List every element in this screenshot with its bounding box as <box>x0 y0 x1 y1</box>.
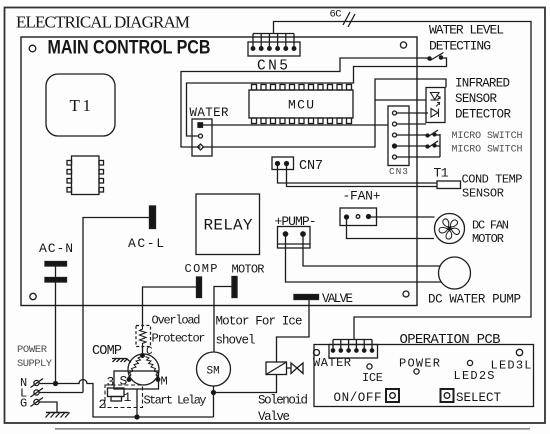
svg-text:SENSOR: SENSOR <box>462 187 504 201</box>
connector WATER (3-pin) <box>192 119 212 156</box>
svg-text:MOTOR: MOTOR <box>232 263 265 277</box>
connector CN5 <box>248 34 300 57</box>
wire CN3 pin3 to micro switch 1 <box>397 134 427 136</box>
svg-text:COMP: COMP <box>185 262 218 276</box>
micro switch SW2 <box>426 130 440 137</box>
svg-text:DC WATER PUMP: DC WATER PUMP <box>428 293 521 307</box>
svg-text:ICE: ICE <box>362 371 383 385</box>
svg-text:LED3L: LED3L <box>491 359 532 373</box>
svg-text:OPERATION PCB: OPERATION PCB <box>400 332 501 348</box>
svg-text:WATER: WATER <box>313 356 351 370</box>
svg-text:MCU: MCU <box>288 98 314 113</box>
start relay body <box>114 371 159 389</box>
operation PCB connector <box>329 340 378 359</box>
svg-text:SM: SM <box>207 366 220 378</box>
svg-text:-FAN+: -FAN+ <box>343 189 381 204</box>
compressor casing hatch <box>112 359 131 363</box>
wire start relay to N rail <box>136 389 138 417</box>
ground symbol <box>46 413 70 418</box>
wire 6C harness CN5 to operation PCB <box>274 22 532 340</box>
wire WATER pin1 to CN3 row <box>203 124 388 126</box>
svg-text:LED2S: LED2S <box>454 369 495 383</box>
svg-text:M: M <box>161 375 168 389</box>
LED ICE <box>367 364 372 369</box>
MCU U2 <box>249 85 353 124</box>
svg-text:WATER: WATER <box>190 106 229 120</box>
svg-text:S: S <box>120 374 128 389</box>
overload protector <box>136 326 151 347</box>
wire IR sensor upper diode feed <box>375 99 426 101</box>
LED POWER <box>414 369 419 374</box>
wire COMP terminal to overload protector <box>143 287 197 326</box>
connector PUMP <box>278 227 311 249</box>
junction SM / solenoid return <box>212 391 216 395</box>
svg-text:ON/OFF: ON/OFF <box>334 391 382 405</box>
wire solenoid valve return to SM junction <box>214 375 277 393</box>
svg-text:VALVE: VALVE <box>322 292 353 306</box>
terminal VALVE <box>294 295 319 300</box>
transformer T1 <box>46 74 115 136</box>
junction N / AC-N <box>54 382 58 386</box>
wire FAN- to fan motor <box>347 217 435 239</box>
LED2S LED <box>467 360 472 365</box>
svg-text:MOTOR: MOTOR <box>472 232 504 246</box>
svg-text:SUPPLY: SUPPLY <box>17 358 53 370</box>
prong N <box>31 379 44 388</box>
svg-text:MICRO SWITCH: MICRO SWITCH <box>452 131 523 142</box>
svg-text:DETECTING: DETECTING <box>429 39 491 54</box>
wire G line <box>39 402 57 413</box>
svg-text:6C: 6C <box>330 9 342 21</box>
wire CN7 pin2 to cond temp sensor <box>287 164 438 187</box>
wire VALVE terminal to solenoid valve <box>277 300 310 363</box>
wire overload to compressor C <box>142 347 144 356</box>
svg-text:POWER: POWER <box>399 357 440 371</box>
svg-text:Motor For Ice: Motor For Ice <box>216 315 303 329</box>
wire CN3 pin2 to IR box <box>397 123 427 125</box>
water level switch SW1 <box>428 53 444 61</box>
shovel motor SM <box>197 352 231 386</box>
svg-text:shovel: shovel <box>216 334 256 348</box>
svg-text:DETECTOR: DETECTOR <box>455 108 511 122</box>
wire CN3 pin1 to IR diode <box>397 112 429 114</box>
page edge shadow line <box>55 428 530 430</box>
wire CN3 pin4 to micro switch 2 <box>397 145 427 147</box>
operation PCB outline <box>314 345 534 407</box>
wire PUMP pin+ to water pump <box>303 234 441 266</box>
infrared sensor detector <box>426 88 445 123</box>
hole operation left <box>314 350 320 356</box>
svg-text:POWER: POWER <box>17 344 48 356</box>
hole bottom-left <box>30 293 36 299</box>
hole top-left <box>29 45 36 52</box>
terminal AC-N (2 plates) <box>45 262 67 267</box>
svg-text:AC-L: AC-L <box>128 236 164 251</box>
svg-text:MICRO SWITCH: MICRO SWITCH <box>452 145 523 156</box>
svg-text:SELECT: SELECT <box>456 391 501 405</box>
relay K1 <box>196 194 260 255</box>
prong G <box>31 398 44 407</box>
wire AC-N to N <box>55 282 57 384</box>
main control PCB outline <box>21 37 417 306</box>
wire WATER pin3 right to IR sensor riser <box>204 79 447 147</box>
wire CN3 pin5 common <box>397 156 441 158</box>
start relay coil block <box>111 397 122 402</box>
svg-text:RELAY: RELAY <box>204 217 253 235</box>
svg-text:CN7: CN7 <box>299 159 323 174</box>
solenoid valve coil <box>266 362 303 375</box>
svg-text:Valve: Valve <box>258 410 290 424</box>
svg-text:2: 2 <box>99 397 107 412</box>
wire N line with hop over AC-L <box>39 380 214 418</box>
cond temp sensor T1 body <box>437 181 461 189</box>
start relay contact block <box>108 388 125 397</box>
connector FAN <box>340 208 377 226</box>
svg-text:COMP: COMP <box>92 344 122 359</box>
hole bottom-right <box>403 291 409 297</box>
svg-text:Solenoid: Solenoid <box>258 394 308 408</box>
wire SM bottom to rail <box>213 386 215 417</box>
svg-text:WATER LEVEL: WATER LEVEL <box>429 23 504 38</box>
hole top-right <box>400 42 406 48</box>
start relay dashed box <box>105 385 143 408</box>
wire water-level switch return to WATER pin2 <box>187 58 447 136</box>
terminal AC-L <box>150 206 156 229</box>
svg-text:COND TEMP: COND TEMP <box>462 173 523 187</box>
terminal MOTOR <box>232 277 237 298</box>
connector CN3 <box>388 106 409 166</box>
button SELECT <box>441 389 454 402</box>
wire micro switch common <box>439 134 441 157</box>
wire AC-N link <box>55 266 57 278</box>
prong L <box>31 388 44 397</box>
svg-text:Start Lelay: Start Lelay <box>144 394 207 408</box>
svg-text:1: 1 <box>124 390 132 405</box>
svg-text:CN3: CN3 <box>389 166 408 177</box>
connector CN7 <box>272 157 294 170</box>
wire PUMP pin- to water pump <box>286 234 442 282</box>
terminal COMP <box>197 277 202 298</box>
wire MOTOR terminal to SM motor <box>214 287 232 353</box>
micro switch SW3 <box>426 141 440 148</box>
wire CN7 pin1 to cond temp sensor <box>278 164 438 184</box>
DC fan motor M1 <box>435 214 465 244</box>
button ON/OFF <box>386 389 399 402</box>
svg-text:T1: T1 <box>70 96 92 115</box>
wire L line <box>39 392 83 394</box>
svg-text:Protector: Protector <box>152 332 206 346</box>
svg-text:ELECTRICAL DIAGRAM: ELECTRICAL DIAGRAM <box>16 13 190 32</box>
svg-text:SENSOR: SENSOR <box>455 92 497 106</box>
wire AC-L to L <box>83 218 150 393</box>
svg-text:T1: T1 <box>434 166 449 181</box>
compressor motor <box>127 354 160 385</box>
6C bundle slashes <box>343 12 350 25</box>
svg-text:AC-N: AC-N <box>39 241 73 256</box>
svg-text:3: 3 <box>107 375 115 390</box>
wire FAN+ to fan motor <box>370 216 435 218</box>
svg-text:INFRARED: INFRARED <box>455 77 510 91</box>
DC water pump M2 <box>439 257 471 289</box>
svg-text:MAIN CONTROL PCB: MAIN CONTROL PCB <box>48 37 211 59</box>
hole operation right <box>516 349 522 355</box>
svg-text:G: G <box>20 397 27 411</box>
svg-text:Overload: Overload <box>152 314 201 328</box>
wire water-level feed: WATER pin3 left riser to switch <box>181 58 428 147</box>
IC U1 (8-pin) <box>67 156 104 195</box>
svg-text:+PUMP-: +PUMP- <box>275 214 317 229</box>
svg-text:DC FAN: DC FAN <box>472 219 509 233</box>
junction rail <box>135 415 139 419</box>
